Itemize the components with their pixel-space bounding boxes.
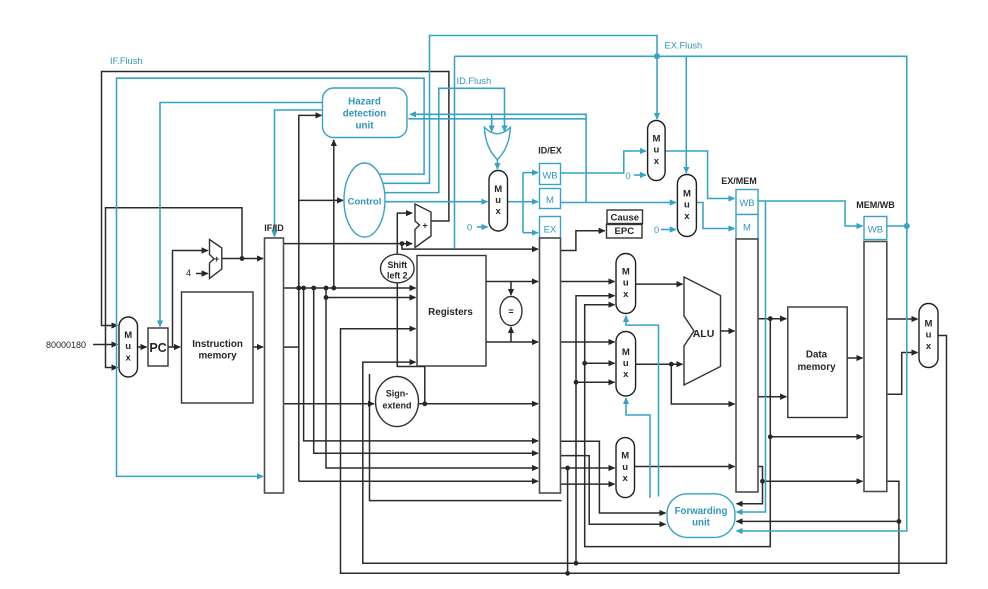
svg-text:memory: memory [797,362,836,373]
svg-text:x: x [496,206,502,217]
node rt junction [311,286,316,291]
wire ALU result to MEM/WB [770,436,862,438]
svg-text:M: M [546,195,554,206]
ALU [684,277,721,385]
wire rd to forwarding unit [737,520,899,522]
wire MEM/WB to mux D bottom [887,353,918,395]
wire PC+4 feedback to PC mux [106,208,243,368]
wire EX/MEM WB down to forwarding unit [737,201,766,512]
wire ALU forward to mux B [585,362,615,364]
wire rt field down to ID/EX [314,288,538,453]
svg-text:EX/MEM: EX/MEM [721,176,757,186]
svg-text:EPC: EPC [615,226,635,237]
node WB rail junction [904,223,910,229]
IF/ID register [265,238,284,493]
PC [148,328,168,366]
svg-text:MEM/WB: MEM/WB [856,200,895,210]
wire MEM/WB to mux D top [887,318,918,320]
svg-text:Control: Control [348,197,382,208]
wire EX/MEM WB to MEM/WB WB [758,201,863,226]
svg-text:WB: WB [542,171,557,182]
wire mux B to ALU [636,363,683,365]
svg-text:80000180: 80000180 [46,340,86,350]
wire 80000180 input [93,344,118,346]
wire mux to PC [138,346,147,348]
svg-text:WB: WB [868,225,883,236]
wire WB bundle to mux 1 [561,151,647,173]
svg-text:M: M [621,451,629,462]
svg-text:4: 4 [186,268,191,278]
wire shift left 2 out to branch adder [397,213,412,255]
wire rt to forwarding unit [561,456,666,525]
svg-text:ID.Flush: ID.Flush [457,76,492,86]
svg-text:u: u [653,145,659,156]
sign-extend [376,377,419,427]
wire sign-ext tap to shift left 2 [397,283,425,404]
svg-text:0: 0 [654,225,659,235]
node EX.Flush junction [654,53,660,59]
control [344,163,385,237]
wire WB value forward riser [576,296,615,563]
wire zero to mux 1 [634,174,646,176]
svg-text:M: M [622,347,630,358]
node instr junction [296,286,301,291]
svg-text:M: M [743,223,751,234]
wire rd to mux C [561,483,615,485]
cause register [607,210,643,224]
svg-text:x: x [126,352,132,363]
svg-text:detection: detection [343,109,387,120]
svg-text:u: u [622,462,628,473]
wire mux C out to EX/MEM [635,466,735,468]
svg-text:M: M [622,267,630,278]
svg-text:x: x [623,289,629,300]
instruction memory [182,292,254,403]
svg-text:unit: unit [356,121,375,132]
wire M bundle to mux 2 [561,202,676,204]
mux B [616,332,636,397]
svg-text:Registers: Registers [428,307,473,318]
wire rs to forwarding unit [561,441,666,513]
svg-text:M: M [124,330,132,341]
wire 4 to IF adder [196,273,208,275]
wire data memory read data to MEM/WB [847,357,862,359]
wire instruction to read register 1 [284,287,416,289]
wire IF adder out to IF/ID [222,258,263,260]
wire rt compare to hazard detection unit [409,118,587,120]
mux A [616,254,636,314]
svg-text:+: + [422,221,427,231]
forwarding unit [667,494,735,538]
wire cyan drop at 454 [454,56,456,248]
wire mux D output writeback loop [363,336,947,564]
wire read data 1 to equality [510,282,512,296]
wire branch-target feedback to PC mux [102,72,449,326]
svg-text:M: M [652,134,660,145]
wire PC to instruction memory [168,346,180,348]
wire rd number loop to write register [341,329,899,574]
svg-text:u: u [926,330,932,341]
wire read data 2 to ID/EX [486,341,538,343]
wire ALU result to EX/MEM [721,330,735,332]
wire ID.Flush to OR gate [369,88,505,192]
OR gate [484,127,510,159]
registers [417,256,486,367]
svg-text:0: 0 [626,171,631,181]
svg-text:u: u [623,278,629,289]
svg-text:u: u [125,341,131,352]
svg-text:Shift: Shift [388,260,408,270]
svg-text:ALU: ALU [693,328,715,340]
svg-text:x: x [684,211,690,222]
mux ID flush [489,171,508,232]
branch adder [415,204,431,248]
mux C [616,438,635,498]
wire OR gate to control mux [496,160,498,169]
svg-text:M: M [683,189,691,200]
svg-text:M: M [925,319,933,330]
shift left 2 [381,254,415,283]
wire control to mux [385,201,488,203]
wire PC to IF adder [173,251,208,348]
wire instruction stub out of IF/ID [284,346,299,348]
wire ALU result to data memory address [758,318,786,320]
svg-text:u: u [623,358,629,369]
IF adder [210,240,222,279]
wire EX.Flush to mux 1 [373,36,657,184]
wire mux 2 out to EX/MEM M [696,203,734,229]
wire rd EX/MEM to MEM/WB [758,467,863,482]
wire PCWrite from hazard unit [160,103,323,327]
svg-text:Hazard: Hazard [348,97,381,108]
svg-text:x: x [623,473,629,484]
wire rt to read register 2 [326,297,416,299]
mux 1 EX.Flush WB [648,121,666,181]
svg-text:u: u [684,200,690,211]
svg-text:PC: PC [149,341,166,355]
wire IF.Flush [117,78,425,476]
wire zero to mux 2 [661,229,676,231]
EPC register [607,225,643,239]
wire EX/MEM rd to forwarding unit [737,481,763,504]
svg-text:=: = [508,307,513,317]
wire field4 to ID/EX [299,480,538,482]
wire rt to mux C [561,467,615,469]
wire read data 1 to mux A [561,281,615,283]
svg-text:0: 0 [467,223,472,233]
wire memread to hazard detection unit [410,114,586,202]
wire read data 1 to ID/EX [486,281,538,283]
svg-text:x: x [623,369,629,380]
svg-text:IF.Flush: IF.Flush [110,56,143,66]
wire read data 2 to mux B [561,341,615,343]
wire forwarding unit to mux B select [626,398,650,498]
svg-text:unit: unit [692,518,711,529]
svg-text:Cause: Cause [611,213,640,224]
svg-text:ID/EX: ID/EX [538,146,562,156]
wire store data EX/MEM to data memory [758,396,786,398]
wire mux 1 out to EX/MEM WB [665,151,734,199]
hazard detection unit [323,88,408,138]
svg-text:left 2: left 2 [387,271,408,281]
svg-text:x: x [654,156,660,167]
svg-text:x: x [926,341,932,352]
wire control mux out bracket [508,201,524,203]
wire IF/IDWrite from hazard unit [275,110,323,237]
svg-text:Forwarding: Forwarding [675,506,728,517]
equality comparator [500,297,522,326]
wire WB forward to mux B [576,381,615,383]
wire aux vertical near sign-extend [370,374,562,501]
wire PC+4 down to ID/EX [402,244,538,250]
svg-text:Data: Data [806,350,828,361]
svg-text:EX: EX [544,225,557,236]
svg-text:EX.Flush: EX.Flush [665,41,703,51]
svg-text:Sign-: Sign- [386,389,409,399]
wire EX.Flush to mux 2 [685,56,687,173]
wire instruction up to hazard detection unit [299,115,322,481]
wire zero to control mux [477,226,488,228]
wire rt branch down [567,468,569,573]
wire forwarding unit to mux A select [626,316,659,497]
wire rt field up to hazard detection unit [333,140,335,288]
node adder-out junction [240,256,245,261]
svg-text:+: + [214,254,219,264]
svg-text:memory: memory [198,351,237,362]
svg-text:extend: extend [382,401,411,411]
mux D [919,304,938,368]
mux 2 EX.Flush M [677,175,696,237]
svg-text:u: u [495,195,501,206]
wire sign-extend out to ID/EX [419,403,538,405]
wire branch into OR gate left [491,114,493,131]
wire mux A to ALU [636,283,683,285]
wire instruction memory to IF/ID [253,346,263,348]
wire rs field down to ID/EX [304,288,538,441]
wire ALU result forward loop [585,305,771,547]
data memory [788,307,847,418]
svg-text:IF/ID: IF/ID [264,223,284,233]
svg-text:WB: WB [739,198,754,209]
mux PC [119,317,138,377]
wire read data 2 to equality [510,327,512,342]
wire rail to MEM/WB WB box [887,225,907,227]
wire rd field down to ID/EX [326,288,538,468]
wire store data to EX/MEM [671,364,734,404]
wire instruction to control [299,199,343,201]
svg-text:M: M [494,184,502,195]
svg-text:Instruction: Instruction [192,339,243,350]
wire PC value to EPC [561,231,605,251]
wire PC+4 to branch adder [284,243,412,245]
wire EX.Flush rail right [455,56,907,531]
wire imm16 to sign-extend [284,403,374,405]
